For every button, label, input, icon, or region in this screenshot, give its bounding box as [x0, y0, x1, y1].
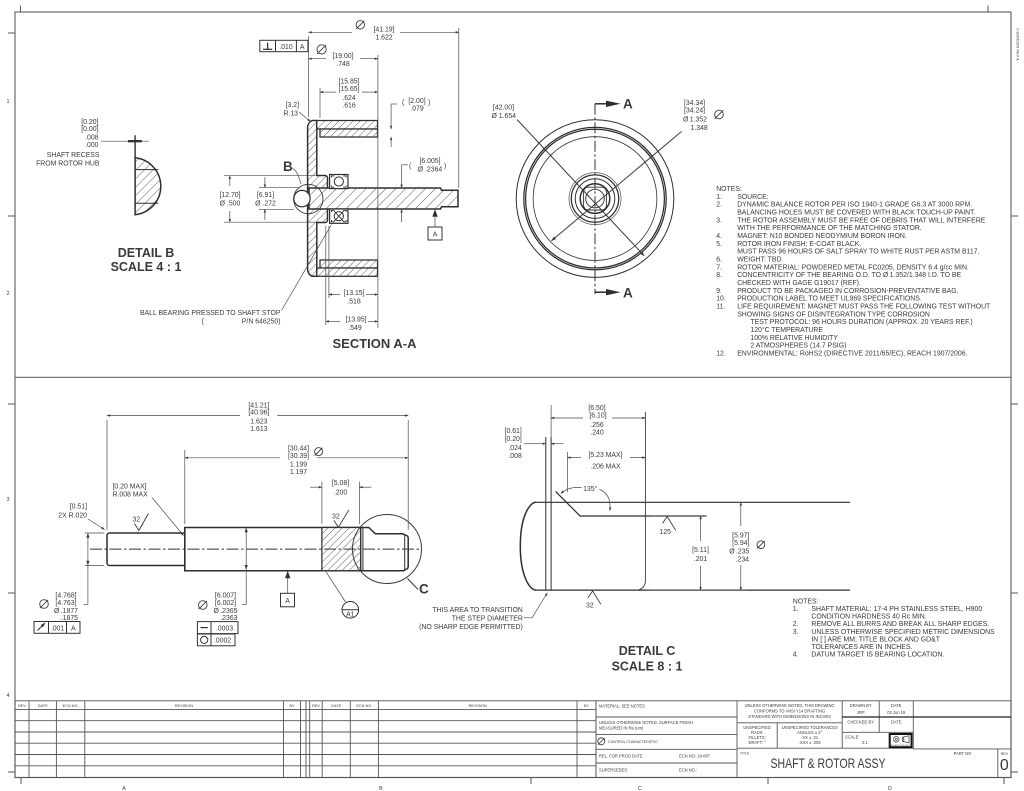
- svg-text:.624: .624: [342, 95, 356, 102]
- datum A flag (shaft view): [281, 571, 295, 607]
- svg-text:135°: 135°: [583, 485, 597, 493]
- svg-text:2:1: 2:1: [862, 740, 868, 745]
- svg-text:( P/N 646250): ( P/N 646250): [202, 319, 281, 326]
- svg-text:[0.20 MAX]: [0.20 MAX]: [113, 483, 147, 490]
- svg-text:ROTOR MATERIAL: POWDERED METAL: ROTOR MATERIAL: POWDERED METAL FC0205, D…: [737, 264, 969, 271]
- transition note: [419, 593, 547, 631]
- svg-text:.549: .549: [348, 325, 362, 332]
- magnet inner circle: [533, 137, 657, 261]
- dim 41.19: [309, 21, 459, 42]
- dim 5.11: [650, 516, 709, 590]
- dim 19.00: [309, 45, 378, 68]
- dim 30.44: [185, 445, 408, 524]
- svg-text:[15.65]: [15.65]: [338, 86, 359, 93]
- svg-text:.000: .000: [85, 142, 99, 149]
- surface finish 32 (left): [133, 514, 149, 531]
- svg-text:WITH THE PERFORMANCE OF THE MA: WITH THE PERFORMANCE OF THE MATCHING STA…: [737, 225, 922, 232]
- ring circle pair: [524, 127, 666, 269]
- main section: [185, 528, 408, 571]
- svg-text:.234: .234: [736, 556, 750, 563]
- finish 125: [660, 517, 676, 536]
- dim 0.61: [505, 428, 564, 460]
- svg-text:BY: BY: [584, 704, 590, 708]
- zone numbers: [6, 99, 892, 791]
- svg-text:MAGNET: N10 BONDED NEODYMIUM B: MAGNET: N10 BONDED NEODYMIUM BORON IRON.: [737, 233, 907, 240]
- svg-text:TEST PROTOCOL: 96 HOURS DURATI: TEST PROTOCOL: 96 HOURS DURATION (APPROX…: [750, 319, 972, 326]
- svg-text:[6.10]: [6.10]: [589, 413, 606, 420]
- svg-text:.010: .010: [279, 44, 293, 51]
- label C with leader: [408, 579, 419, 590]
- svg-text:SOURCE:: SOURCE:: [737, 194, 768, 201]
- dim 5.08: [310, 480, 371, 524]
- svg-text:[42.00]: [42.00]: [493, 105, 514, 112]
- svg-text:A: A: [122, 786, 126, 791]
- step face line: [184, 528, 186, 571]
- svg-text:DRAWN BY: DRAWN BY: [850, 703, 872, 708]
- centerline above ball with target cross: [134, 135, 136, 158]
- label 0.20 MAX R.008 MAX: [113, 483, 184, 535]
- svg-text:4: 4: [6, 693, 9, 699]
- svg-text:[13.15]: [13.15]: [343, 290, 364, 297]
- svg-text:1.613: 1.613: [250, 426, 267, 433]
- extension lines: [308, 36, 310, 117]
- svg-text:[6.91]: [6.91]: [257, 192, 274, 199]
- svg-text:32: 32: [586, 603, 594, 610]
- svg-text:REVISION: REVISION: [469, 704, 487, 708]
- mid divider: [15, 376, 1011, 378]
- svg-text:MUST PASS 96 HOURS OF SALT SPR: MUST PASS 96 HOURS OF SALT SPRAY TO WHIT…: [737, 249, 979, 256]
- dia dim left (Ø.1877): [34, 533, 104, 633]
- svg-text:(NO SHARP EDGE PERMITTED): (NO SHARP EDGE PERMITTED): [419, 624, 523, 631]
- svg-text:THIS AREA TO TRANSITION: THIS AREA TO TRANSITION: [432, 607, 522, 614]
- svg-text:2 ATMOSPHERES (14.7 PSIG): 2 ATMOSPHERES (14.7 PSIG): [750, 343, 846, 350]
- dim (2.00) flange thickness: [391, 98, 430, 147]
- svg-text:2.: 2.: [793, 621, 799, 628]
- svg-text:SHAFT & ROTOR ASSY: SHAFT & ROTOR ASSY: [771, 756, 886, 771]
- rotor top flange iron band: [317, 121, 378, 130]
- svg-text:C: C: [419, 582, 429, 597]
- svg-text:[6.50]: [6.50]: [588, 405, 605, 412]
- svg-text:1: 1: [6, 99, 9, 105]
- dim 42.00 label: [491, 105, 516, 120]
- svg-text:[4.763]: [4.763]: [55, 600, 76, 607]
- dim 15.85: [320, 79, 378, 110]
- svg-text:[15.85]: [15.85]: [338, 79, 359, 86]
- svg-text:UNLESS OTHERWISE NOTED, THIS D: UNLESS OTHERWISE NOTED, THIS DRAWING: [745, 703, 835, 708]
- surface finish 32 (datum band): [332, 510, 349, 528]
- svg-text:NOTES:: NOTES:: [716, 186, 742, 193]
- ball end of shaft: [294, 190, 310, 206]
- svg-text:DETAIL C: DETAIL C: [619, 644, 675, 658]
- detail B half-ball shape hatched: [135, 158, 161, 215]
- svg-text:12.: 12.: [716, 350, 726, 357]
- svg-text:REV: REV: [18, 704, 26, 708]
- main outline: top edge, dome left end, bottom edge: [520, 502, 536, 590]
- svg-text:.0002: .0002: [214, 638, 231, 645]
- svg-text:1.: 1.: [716, 194, 722, 201]
- svg-text:3: 3: [6, 497, 9, 503]
- chamfer 135 deg: [556, 491, 581, 516]
- dim 13.95: [326, 317, 378, 333]
- datum target A1 balloon: [326, 571, 359, 618]
- revision table: [15, 701, 596, 778]
- svg-text:3.: 3.: [793, 629, 799, 636]
- svg-text:A: A: [285, 598, 290, 605]
- svg-text:TOLERANCES ARE IN INCHES.: TOLERANCES ARE IN INCHES.: [811, 644, 912, 651]
- svg-text:[0.00]: [0.00]: [81, 126, 98, 133]
- svg-text:[6.005]: [6.005]: [419, 158, 440, 165]
- svg-text:PART NO: PART NO: [954, 751, 972, 756]
- svg-text:[41.19]: [41.19]: [373, 27, 394, 34]
- svg-text:MEASURED IN Ra (um): MEASURED IN Ra (um): [599, 725, 644, 730]
- crop edge vertical with corner: [637, 412, 646, 590]
- svg-text:[5.11]: [5.11]: [692, 547, 709, 554]
- svg-text:PRODUCTION LABEL TO MEET UL969: PRODUCTION LABEL TO MEET UL969 SPECIFICA…: [737, 296, 922, 303]
- svg-text:REMOVE ALL BURRS AND BREAK ALL: REMOVE ALL BURRS AND BREAK ALL SHARP EDG…: [811, 621, 989, 628]
- svg-text:[6.002]: [6.002]: [215, 600, 236, 607]
- section cut arrows A-A: [595, 97, 633, 301]
- angle 135: [561, 485, 610, 511]
- svg-text:Ø .272: Ø .272: [255, 201, 276, 208]
- svg-text:REL. FOR PROD DATE: REL. FOR PROD DATE: [599, 754, 643, 759]
- svg-text:A: A: [71, 625, 76, 632]
- label 3.2 R.13 with leader: [283, 102, 310, 122]
- control characteristic symbol: [598, 738, 605, 745]
- svg-text:DATUM TARGET IS BEARING LOCATI: DATUM TARGET IS BEARING LOCATION.: [811, 652, 944, 659]
- svg-text:REVISION: REVISION: [175, 704, 193, 708]
- label B with leader: [283, 159, 301, 184]
- lower ball bearing: [330, 209, 348, 223]
- svg-text:CONCENTRICITY OF THE BEARING O: CONCENTRICITY OF THE BEARING O.D. TO Ø 1…: [737, 272, 961, 279]
- svg-text:[0.51]: [0.51]: [70, 503, 87, 510]
- svg-text:STANDARD WITH DIMENSIONS IN IN: STANDARD WITH DIMENSIONS IN INCHES: [748, 714, 831, 719]
- svg-text:Ø .1877: Ø .1877: [54, 608, 78, 615]
- centerline: [90, 548, 420, 550]
- svg-text:[0.61]: [0.61]: [505, 428, 522, 435]
- svg-text:[30.39]: [30.39]: [288, 453, 309, 460]
- dim 13.15: [329, 290, 378, 306]
- svg-text:.008: .008: [508, 453, 522, 460]
- svg-text:): ): [428, 100, 430, 107]
- svg-text:1.623: 1.623: [250, 418, 267, 425]
- svg-text:[5.94]: [5.94]: [732, 540, 749, 547]
- svg-text:A: A: [433, 232, 438, 239]
- svg-text:Ø .500: Ø .500: [220, 201, 241, 208]
- dim 6.50: [551, 405, 645, 437]
- small left section: [107, 533, 185, 566]
- svg-text:WEIGHT: TBD: WEIGHT: TBD: [737, 257, 781, 264]
- svg-text:SUPERSEDES:: SUPERSEDES:: [599, 768, 628, 773]
- label 0.51 2X R.020: [58, 503, 104, 529]
- svg-text:1.: 1.: [793, 606, 799, 613]
- svg-text:1.622: 1.622: [375, 35, 392, 42]
- svg-text:.518: .518: [347, 299, 361, 306]
- svg-text:A: A: [623, 97, 633, 112]
- svg-text:.200: .200: [334, 489, 348, 496]
- ball bearing note: [140, 225, 332, 326]
- shaft (hatched) with end step: [309, 188, 458, 209]
- svg-text:R.13: R.13: [283, 111, 298, 118]
- svg-text:.616: .616: [342, 103, 356, 110]
- svg-text:TITLE: TITLE: [740, 752, 750, 756]
- svg-text:4.: 4.: [793, 652, 799, 659]
- detail C boundary circle: [353, 515, 422, 584]
- svg-text:32: 32: [332, 514, 340, 521]
- svg-text:[5.97]: [5.97]: [732, 532, 749, 539]
- svg-text:Ø .2364: Ø .2364: [418, 167, 443, 174]
- svg-text:CONTROL CHARACTERISTIC: CONTROL CHARACTERISTIC: [608, 740, 658, 744]
- svg-text:SHAFT MATERIAL: 17-4 PH STAINL: SHAFT MATERIAL: 17-4 PH STAINLESS STEEL,…: [811, 606, 982, 613]
- svg-text:C-BORDER REV A: C-BORDER REV A: [1016, 28, 1020, 61]
- svg-text:.201: .201: [694, 556, 708, 563]
- svg-text:CHECKED WITH GAGE G19017 (REF): CHECKED WITH GAGE G19017 (REF).: [737, 280, 861, 287]
- svg-text:[13.95]: [13.95]: [345, 317, 366, 324]
- svg-text:.008: .008: [85, 135, 99, 142]
- transition double lines: [360, 528, 362, 571]
- svg-text:A1: A1: [346, 611, 355, 618]
- dia dim mid (Ø.2365): [197, 528, 247, 646]
- svg-text:2.: 2.: [716, 202, 722, 209]
- step line: [580, 515, 707, 517]
- svg-text:.XXX ± .005: .XXX ± .005: [799, 740, 822, 745]
- straightness frame .0003: [197, 622, 238, 634]
- svg-text:THIRD ANGLE PROJECTION: THIRD ANGLE PROJECTION: [889, 744, 914, 747]
- svg-text:DATE: DATE: [38, 704, 48, 708]
- svg-text:DETAIL B: DETAIL B: [118, 246, 174, 260]
- svg-text:CHECKED BY: CHECKED BY: [847, 720, 874, 725]
- svg-text:[4.768]: [4.768]: [55, 593, 76, 600]
- svg-text:SHOWING SIGNS OF DISINTEGRATIO: SHOWING SIGNS OF DISINTEGRATION TYPE COR…: [737, 311, 930, 318]
- dim (6.005) shaft dia: [402, 158, 447, 222]
- svg-text:Ø 1.352: Ø 1.352: [683, 117, 707, 124]
- svg-text:[5.23 MAX]: [5.23 MAX]: [588, 452, 622, 459]
- svg-text:[19.00]: [19.00]: [332, 53, 353, 60]
- svg-text:A: A: [623, 286, 633, 301]
- svg-text:[2.00]: [2.00]: [408, 98, 425, 105]
- datum frame .010 A: [260, 40, 308, 51]
- svg-text:THE STEP DIAMETER: THE STEP DIAMETER: [452, 615, 523, 622]
- svg-text:[6.007]: [6.007]: [215, 593, 236, 600]
- svg-text:.0003: .0003: [216, 625, 233, 632]
- svg-text:.001: .001: [51, 625, 65, 632]
- upper ball bearing: [330, 175, 348, 189]
- svg-text:6.: 6.: [716, 257, 722, 264]
- dim 5.23 MAX: [567, 452, 645, 492]
- svg-text:DATE: DATE: [331, 704, 341, 708]
- svg-text:[40.96]: [40.96]: [248, 410, 269, 417]
- svg-text:DATE: DATE: [891, 703, 902, 708]
- svg-text:SCALE 4 : 1: SCALE 4 : 1: [111, 260, 182, 274]
- svg-text:ECN NO.: ECN NO.: [356, 704, 372, 708]
- svg-text:[30.44]: [30.44]: [288, 445, 309, 452]
- svg-text:JRP: JRP: [857, 710, 865, 715]
- rotor bottom flange iron band: [317, 268, 378, 276]
- svg-text:.024: .024: [508, 445, 522, 452]
- svg-text:MATERIAL: SEE NOTES: MATERIAL: SEE NOTES: [599, 704, 645, 709]
- svg-text:BALL BEARING PRESSED TO SHAFT: BALL BEARING PRESSED TO SHAFT STOP: [140, 310, 281, 317]
- dim 12.70 bearing OD: [219, 176, 316, 223]
- svg-text:.748: .748: [336, 61, 350, 68]
- svg-text:[0.20]: [0.20]: [81, 119, 98, 126]
- svg-text:5.: 5.: [716, 241, 722, 248]
- svg-text:9.: 9.: [716, 288, 722, 295]
- svg-text:[5.08]: [5.08]: [332, 480, 349, 487]
- svg-text:1.197: 1.197: [290, 469, 307, 476]
- svg-text:SCALE: SCALE: [845, 735, 859, 740]
- svg-text:10.: 10.: [716, 296, 726, 303]
- svg-text:CONFORMS TO ANSI Y14 DRAFTING: CONFORMS TO ANSI Y14 DRAFTING: [754, 709, 825, 714]
- datum A flag on shaft: [428, 209, 442, 240]
- svg-text:BY: BY: [289, 704, 295, 708]
- center X diagonal leaders: [517, 120, 644, 256]
- dim 5.97 dia: [650, 502, 765, 590]
- svg-text:[34.34]: [34.34]: [684, 100, 705, 107]
- title block texts: [599, 704, 750, 773]
- svg-text:FROM ROTOR HUB: FROM ROTOR HUB: [36, 161, 100, 168]
- svg-text:4.: 4.: [716, 233, 722, 240]
- svg-text:Ø 1.654: Ø 1.654: [491, 113, 516, 120]
- transition double lines: [545, 437, 547, 590]
- vertical centerline (dash-dot): [594, 104, 596, 294]
- svg-text:100% RELATIVE HUMIDITY: 100% RELATIVE HUMIDITY: [750, 335, 838, 342]
- svg-text:125: 125: [660, 529, 672, 536]
- svg-text:IN [ ] ARE MM; TITLE BLOCK AND: IN [ ] ARE MM; TITLE BLOCK AND GD&T: [811, 636, 940, 643]
- hub circles: [569, 173, 621, 225]
- svg-text:[34.24]: [34.24]: [684, 108, 705, 115]
- shaft outline: [90, 528, 420, 571]
- svg-text:UNLESS OTHERWISE NOTED, SURFAC: UNLESS OTHERWISE NOTED, SURFACE FINISH: [599, 720, 693, 725]
- svg-text:SCALE 8 : 1: SCALE 8 : 1: [612, 660, 683, 674]
- svg-text:11.: 11.: [716, 304, 725, 311]
- section A-A dimensions: [309, 28, 459, 328]
- third angle projection symbol: [889, 734, 914, 747]
- svg-text:NOTES:: NOTES:: [793, 599, 819, 606]
- rotor bottom magnet band: [320, 260, 378, 268]
- svg-text:DYNAMIC BALANCE ROTOR PER ISO: DYNAMIC BALANCE ROTOR PER ISO 1940-1 GRA…: [737, 202, 972, 209]
- svg-text:BALANCING HOLES MUST BE COVERE: BALANCING HOLES MUST BE COVERED WITH BLA…: [737, 210, 975, 217]
- svg-text:[3.2]: [3.2]: [286, 102, 299, 109]
- svg-text:ECN NO.: ECN NO.: [63, 704, 79, 708]
- end face inner line: [404, 534, 406, 570]
- svg-text:SECTION A-A: SECTION A-A: [332, 336, 417, 351]
- svg-text:ECN NO: 19-087: ECN NO: 19-087: [679, 754, 711, 759]
- rotor top magnet band: [320, 129, 378, 137]
- svg-text:THE ROTOR ASSEMBLY MUST BE FRE: THE ROTOR ASSEMBLY MUST BE FREE OF DEBRI…: [737, 217, 986, 224]
- svg-text:D: D: [888, 786, 892, 791]
- svg-text:C: C: [638, 786, 642, 791]
- dim text shaft recess: [36, 119, 100, 168]
- svg-text:7.: 7.: [716, 264, 722, 271]
- svg-text:8.: 8.: [716, 272, 722, 279]
- hatched datum target band: [322, 528, 361, 571]
- svg-text:SHAFT RECESS: SHAFT RECESS: [47, 152, 100, 159]
- svg-text:CONDITION HARDNESS 40 Rc MIN.: CONDITION HARDNESS 40 Rc MIN.: [811, 614, 926, 621]
- svg-text:DATE: DATE: [891, 720, 902, 725]
- circularity frame .0002: [197, 634, 235, 646]
- dim 34.34 label: [683, 100, 723, 132]
- svg-text:DRAFT: °: DRAFT: °: [749, 740, 766, 745]
- svg-text:Ø .235: Ø .235: [729, 548, 749, 555]
- svg-text:A: A: [300, 44, 305, 51]
- svg-text:0: 0: [1000, 757, 1009, 774]
- svg-text:R.008 MAX: R.008 MAX: [113, 491, 149, 498]
- svg-text:.256: .256: [590, 422, 604, 429]
- svg-text:.206 MAX: .206 MAX: [590, 464, 621, 471]
- svg-text:3.: 3.: [716, 217, 722, 224]
- svg-text:1.199: 1.199: [290, 461, 307, 468]
- svg-text:.079: .079: [410, 106, 424, 113]
- svg-text:03 Jun 19: 03 Jun 19: [887, 710, 906, 715]
- svg-text:REV: REV: [1001, 752, 1009, 756]
- svg-text:32: 32: [133, 517, 141, 524]
- chord lines on ball: [135, 169, 158, 171]
- svg-text:.240: .240: [590, 430, 604, 437]
- outer circle: [516, 120, 674, 278]
- svg-text:ENVIRONMENTAL: RoHS2 (DIRECTIV: ENVIRONMENTAL: RoHS2 (DIRECTIVE 2011/65/…: [737, 350, 967, 357]
- dim 6.91 shaft dia: [255, 177, 300, 220]
- svg-text:LIFE REQUIREMENT: MAGNET MUST: LIFE REQUIREMENT: MAGNET MUST PASS THE F…: [737, 304, 991, 311]
- title block: [596, 701, 1011, 778]
- runout frame .001 A: [34, 622, 80, 634]
- svg-text:1.348: 1.348: [691, 125, 708, 132]
- svg-text:B: B: [379, 786, 383, 791]
- svg-text:2X R.020: 2X R.020: [58, 512, 87, 519]
- svg-text:ROTOR IRON FINISH: E-COAT BLAC: ROTOR IRON FINISH: E-COAT BLACK.: [737, 241, 861, 248]
- rotor body: left wall + hub, hatched: [308, 121, 328, 277]
- svg-text:REV: REV: [312, 704, 320, 708]
- svg-text:2: 2: [6, 291, 9, 297]
- svg-text:[12.70]: [12.70]: [219, 192, 240, 199]
- svg-text:B: B: [283, 159, 293, 174]
- svg-text:ECN NO.:: ECN NO.:: [679, 768, 697, 773]
- svg-text:[41.21]: [41.21]: [248, 402, 269, 409]
- dim 41.21 overall: [107, 402, 408, 530]
- svg-text:PRODUCT TO BE PACKAGED IN CORR: PRODUCT TO BE PACKAGED IN CORROSION-PREV…: [737, 288, 958, 295]
- svg-text:[0.20]: [0.20]: [505, 436, 522, 443]
- svg-text:): ): [444, 163, 446, 170]
- detail B boundary circle: [294, 184, 323, 213]
- svg-text:UNLESS OTHERWISE SPECIFIED MET: UNLESS OTHERWISE SPECIFIED METRIC DIMENS…: [811, 629, 995, 636]
- svg-text:120°C TEMPERATURE: 120°C TEMPERATURE: [750, 326, 823, 334]
- svg-text:Ø .2365: Ø .2365: [214, 608, 238, 615]
- finish 32 (bottom): [586, 591, 601, 610]
